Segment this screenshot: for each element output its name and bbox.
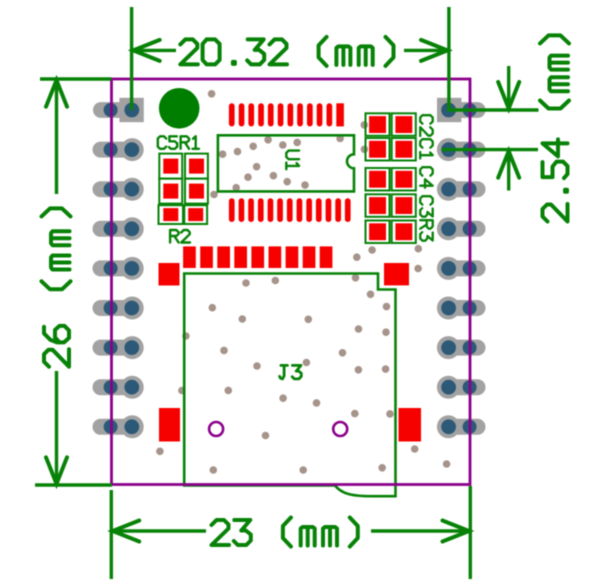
pad left row 7 (through-hole pair) xyxy=(93,336,144,359)
connector J3 outline xyxy=(184,274,395,497)
pad right row 4 (through-hole pair) xyxy=(437,217,486,240)
dim 26 arrow up xyxy=(46,80,67,107)
dim text 26 (mm) xyxy=(42,208,71,366)
J3 mount pad bottom-right xyxy=(399,408,422,442)
pad right row 1 (through-hole pair) xyxy=(437,98,486,122)
pad left row 5 (through-hole pair) xyxy=(93,257,144,280)
pad right row 7 (through-hole pair) xyxy=(437,336,486,359)
dim 23 line right segment xyxy=(371,529,470,532)
pad right row 8 (through-hole pair) xyxy=(437,376,486,399)
label C4 xyxy=(420,167,433,188)
pad left row 9 (through-hole pair) xyxy=(93,415,144,438)
dim 2.54 arrow down segment xyxy=(507,66,510,105)
pad right row 5 (through-hole pair) xyxy=(437,257,486,280)
mount hole left xyxy=(209,422,223,436)
dim text 23 (mm) xyxy=(212,518,358,547)
dim 23 ext line left xyxy=(110,490,113,579)
label J3 xyxy=(280,365,302,379)
dim text 20.32 (mm) xyxy=(180,37,393,66)
dim 2.54 arrow down xyxy=(498,82,519,109)
capacitor C5 / resistor R1 pads xyxy=(159,154,208,204)
dim 26 line upper segment xyxy=(55,80,58,194)
pad right row 3 (through-hole pair) xyxy=(437,178,486,201)
J3 mount pad top-right xyxy=(384,263,409,285)
SMD bar row below U1 xyxy=(229,198,351,222)
dim 20.32 line right segment xyxy=(404,49,448,52)
pad left row 4 (through-hole pair) xyxy=(93,217,144,240)
pad right row 9 (through-hole pair) xyxy=(437,415,486,438)
label C5 xyxy=(158,136,177,149)
dim 2.54 ext line lower xyxy=(442,148,538,151)
via dots grid xyxy=(156,90,450,474)
dim 26 ext line bottom xyxy=(35,483,112,486)
J3 mount pad top-left xyxy=(159,263,180,286)
dim 2.54 arrow up xyxy=(498,151,519,178)
mount hole right xyxy=(333,422,347,436)
dim 26 arrow down xyxy=(46,457,67,484)
SMD pad row above J3 xyxy=(183,246,332,268)
dim 23 ext line right xyxy=(469,486,472,579)
pad left row 8 (through-hole pair) xyxy=(93,376,144,399)
dim 2.54 arrow up segment xyxy=(507,155,510,191)
SMD bar row above U1 xyxy=(229,103,344,126)
board outline xyxy=(112,79,471,485)
pad left row 1 (through-hole pair) xyxy=(93,98,144,122)
dim 20.32 arrow right xyxy=(421,40,448,61)
IC U1 outline xyxy=(218,135,354,191)
pad left row 3 (through-hole pair) xyxy=(93,178,144,201)
pad left row 6 (through-hole pair) xyxy=(93,297,144,320)
label C3R3 xyxy=(420,196,433,241)
dim 23 arrow left xyxy=(113,521,140,542)
J3 mount pad bottom-left xyxy=(159,408,180,442)
dim text 2.54 (mm) xyxy=(540,35,569,221)
label C2C1 xyxy=(420,115,433,158)
capacitors C2 C1 C4 C3 / resistor R3 pads xyxy=(366,113,416,243)
dim 26 line lower segment xyxy=(55,371,58,484)
dim 20.32 ext line left xyxy=(130,7,133,110)
label R2 xyxy=(170,230,190,243)
pad right row 6 (through-hole pair) xyxy=(437,297,486,320)
fiducial dot (green circle) xyxy=(159,88,200,129)
pad right row 2 (through-hole pair) xyxy=(437,138,486,161)
label R1 xyxy=(181,136,199,149)
dim 20.32 line left segment xyxy=(133,49,177,52)
resistor R2 pads xyxy=(159,205,208,224)
label U1 xyxy=(286,151,299,170)
dim 20.32 ext line right + 2.54 ext line top xyxy=(449,7,539,110)
dim 26 ext line top xyxy=(40,77,112,80)
dim 23 line left segment xyxy=(112,529,206,532)
dim 23 arrow right xyxy=(443,521,470,542)
pad left row 2 (through-hole pair) xyxy=(93,138,144,161)
dim 20.32 arrow left xyxy=(133,40,160,61)
